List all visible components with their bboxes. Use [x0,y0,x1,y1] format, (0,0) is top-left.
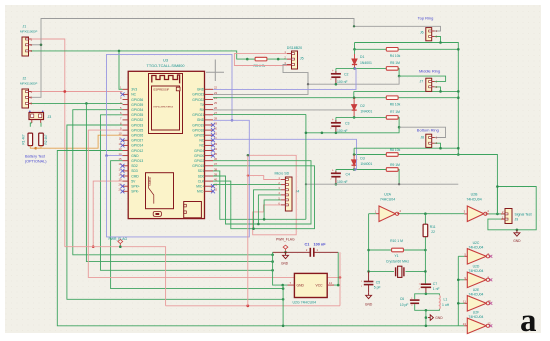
svg-text:GPIO14: GPIO14 [131,144,143,148]
wire red riser x247.8 [247,156,249,306]
svg-text:(OPTIONAL): (OPTIONAL) [25,159,47,163]
wire J1 pin1 red to vertical rail [32,39,65,247]
svg-text:NC: NC [199,139,204,143]
svg-text:GPIO36: GPIO36 [131,98,143,102]
svg-text:GPIO39: GPIO39 [131,103,143,107]
gate U2G 74HCU04 power unit [294,273,327,297]
wire green x305.9 top to module [213,113,306,115]
svg-text:GND: GND [297,284,305,288]
wire module GPIO13 loop [111,161,284,289]
svg-text:PWR_FLAG: PWR_FLAG [109,237,128,241]
svg-text:L1: L1 [444,298,448,302]
svg-text:MIC+: MIC+ [196,185,204,189]
junction D1 bottom [353,67,356,70]
svg-text:Top Ring: Top Ring [418,15,434,20]
svg-text:5 pF: 5 pF [374,286,381,290]
svg-text:GPIO19: GPIO19 [192,123,204,127]
svg-text:12: 12 [119,142,122,146]
wire gray J5 pin3 to ring gnd [213,65,308,95]
svg-text:U2B: U2B [471,193,478,197]
SIM800 block [146,173,174,209]
wire to gnd and bottom rail [425,310,427,326]
svg-text:GPIO34: GPIO34 [131,108,143,112]
junction green at x119 [118,50,121,53]
gray branch to ring1 gnd row [307,73,309,85]
svg-text:R2 4k7: R2 4k7 [44,134,48,144]
wire orange battery test to GPIO26 [36,135,123,148]
wire green top ring gnd A [355,43,459,155]
wire J8 pin2 hook to A3 [435,143,441,148]
resistor R3 4.7k [255,57,267,61]
svg-text:+: + [332,69,334,73]
svg-text:GPIO21: GPIO21 [192,113,204,117]
wire green A3 gnd row [354,147,458,149]
wire J3 pin2 to R2 [40,123,42,127]
wire green SD pin2 to module [213,184,281,186]
junction ring2 drop [398,126,401,129]
capacitor C6 10 pF [410,300,420,303]
wire green CLK nest to pin3 [213,166,315,229]
svg-text:74HCU04: 74HCU04 [466,198,481,202]
svg-text:1N4001: 1N4001 [360,61,372,65]
junction U2G pin7 [281,284,284,287]
svg-text:GPIO0: GPIO0 [194,154,204,158]
resistor R5 1M [386,67,398,71]
svg-text:ESP32-WROVER-B: ESP32-WROVER-B [154,107,174,109]
svg-text:13: 13 [463,322,467,326]
wire top ring rail with R5 [336,67,386,69]
wire gray ring1 gnd row [308,76,399,84]
svg-text:C1: C1 [305,242,310,246]
svg-text:R3 4.7k: R3 4.7k [254,64,266,68]
svg-text:GPIO5: GPIO5 [194,134,204,138]
junction D2 bottom [353,116,356,119]
svg-text:10 pF: 10 pF [400,303,409,307]
wire ring3 B continues to U2B [458,155,497,214]
svg-text:R1 4k7: R1 4k7 [22,134,26,144]
capacitor C2 100 nF [335,68,337,71]
svg-text:16: 16 [119,162,122,166]
wire C1 left to U2G pin7 [273,252,288,285]
wire gray J1/J2 pin2 loop over top [32,19,441,98]
junction C2 bottom [335,83,338,86]
svg-text:1N4001: 1N4001 [360,110,372,114]
svg-text:GPIO4: GPIO4 [194,149,204,153]
svg-text:GND: GND [131,154,139,158]
svg-text:MPX5100DP: MPX5100DP [20,30,37,34]
svg-text:GPIO27: GPIO27 [131,139,143,143]
inductor L1 1 uH [438,295,441,309]
ground below C5 [366,292,372,298]
wire red riser x340 [339,252,341,305]
wire U2B output to J9 [486,213,490,215]
svg-text:Middle Ring: Middle Ring [419,69,440,74]
svg-text:SPK-: SPK- [131,190,139,194]
svg-text:GPIO12: GPIO12 [131,149,143,153]
junction violet [231,119,234,122]
svg-text:14: 14 [119,152,122,156]
wire J3 pin1 to R1 [32,120,41,124]
resistor R1 4k7 [28,133,33,146]
svg-text:GPIO32: GPIO32 [131,118,143,122]
svg-text:C6: C6 [400,297,404,301]
svg-text:DS18B20: DS18B20 [287,46,302,50]
capacitor C7 1 nF [421,284,431,294]
svg-text:Signal Test: Signal Test [515,213,532,217]
wire green SD1 nest to pin5 [213,171,306,219]
svg-text:Micro SD: Micro SD [275,171,290,175]
svg-text:100 nF: 100 nF [337,80,348,84]
svg-text:GND: GND [365,303,373,307]
svg-text:R7 1M: R7 1M [390,110,400,114]
wire J7 pin2 hook to A2 [435,87,441,92]
junction ring1 drop [398,75,401,78]
svg-text:NC: NC [131,93,136,97]
resistor R8 10k [386,153,398,157]
svg-text:D1: D1 [360,55,364,59]
ESP32 shield outline [149,74,183,134]
wire C3 bottom green to module [306,132,336,134]
module U3 left pins [123,89,129,191]
svg-text:GPIO25: GPIO25 [131,128,143,132]
svg-text:21: 21 [119,188,122,192]
wire module GPIO25 red loop [88,130,340,277]
wire green A2 gnd row [354,90,459,92]
wire red bottom rail [166,305,340,307]
svg-text:14: 14 [329,281,333,285]
wire branch down to row 261.6 [86,103,272,261]
no-connect U2D output [489,278,492,281]
svg-text:SD2: SD2 [131,164,138,168]
svg-text:10: 10 [119,132,122,136]
wire left feedback vertical [368,214,370,272]
svg-text:R6 10k: R6 10k [390,102,401,106]
svg-text:100 nF: 100 nF [314,242,327,246]
wire violet module GND loop [107,54,233,155]
resistor R2 4k7 [39,133,44,146]
svg-text:SD3: SD3 [131,169,138,173]
svg-text:SD0: SD0 [198,174,205,178]
svg-text:MIC-: MIC- [197,190,204,194]
svg-text:R11: R11 [430,225,436,229]
svg-text:74HCU04: 74HCU04 [469,292,484,296]
svg-text:J2: J2 [23,77,27,81]
svg-text:RX: RX [200,108,205,112]
wire U2A input [369,213,376,215]
svg-text:GPIO13: GPIO13 [131,159,143,163]
ground sideways [428,315,433,321]
wire C6 L1 loop [426,294,440,296]
svg-text:20: 20 [119,183,122,187]
resistor R6 10k [386,96,398,100]
svg-text:MPX5100DP: MPX5100DP [20,82,37,86]
resistor R9 1M [386,168,398,172]
wire red J5 pin1 loop [234,54,292,66]
wire ring3 rail with R9 [336,169,386,171]
svg-text:Battery Test: Battery Test [25,154,46,158]
svg-text:SD1: SD1 [198,169,205,173]
junction gray x308 [307,83,309,85]
svg-text:J5: J5 [300,57,304,61]
svg-text:GPIO33: GPIO33 [131,123,143,127]
svg-text:J3: J3 [48,115,52,119]
connector J9 Signal Test [505,209,512,224]
wire module GPIO35 loop [101,115,273,270]
svg-text:GPIO26: GPIO26 [131,134,143,138]
wire red rail corner down [65,247,166,306]
svg-text:J8: J8 [420,135,424,139]
junction J2 pin3 branch [85,102,88,105]
svg-text:R10 1 M: R10 1 M [390,239,403,243]
resistor R10 1M [369,249,392,251]
chip logo square [176,87,180,91]
svg-text:R4 10k: R4 10k [390,54,401,58]
SIM800 button [153,212,161,217]
svg-text:19: 19 [119,178,122,182]
junction J9 pin2 [496,213,499,216]
diode D2 1N4001 [352,98,357,118]
svg-text:C5: C5 [376,280,380,284]
junction R3 right [277,58,280,61]
wire J1 pin3 green to DS18B20 and 3V3 [32,51,248,59]
ground below PWR_FLAG [283,252,289,258]
svg-text:74HCU04: 74HCU04 [469,315,484,319]
svg-text:U2G 74HCU04: U2G 74HCU04 [293,301,317,305]
svg-text:U2A: U2A [384,193,391,197]
svg-text:J7: J7 [420,79,424,83]
svg-text:CMD: CMD [131,174,139,178]
svg-text:TTGO-TCALL-SIM800: TTGO-TCALL-SIM800 [147,64,185,68]
no-connect U2C output [489,255,492,258]
wire module GPIO12 outer loop to bottom rail [57,151,458,326]
wire R1/R2 bottoms to junction [30,146,41,149]
svg-text:+: + [332,168,334,172]
svg-text:GPIO15: GPIO15 [192,164,204,168]
resistor R7 1M [386,116,398,120]
wire branch to module 3V3 [119,51,123,89]
svg-text:11: 11 [463,299,466,303]
svg-text:GND: GND [197,88,205,92]
svg-text:Y1: Y1 [394,254,398,258]
svg-text:GND: GND [435,316,443,320]
svg-text:74HCU04: 74HCU04 [469,245,484,249]
svg-text:R5 1M: R5 1M [390,61,400,65]
svg-text:25: 25 [214,101,217,105]
svg-text:GPIO2: GPIO2 [194,159,204,163]
svg-text:17: 17 [119,167,122,171]
svg-text:15: 15 [119,157,122,161]
wire green vertical to C3 row [305,114,307,219]
wire R3 to J5 pin2 [247,58,254,60]
resistor R4 10k [386,48,398,52]
svg-text:C4: C4 [346,173,351,177]
wire violet V1 to ring1 rail [213,68,356,89]
junction J2 pin1 [63,90,66,93]
wire gray hook to J8 pin1 [399,127,445,137]
wire ring3 B with R8 [354,154,386,156]
svg-text:100 nF: 100 nF [337,180,348,184]
diode D3 1N4001 [352,155,357,170]
junction ring2 B [353,96,356,99]
svg-text:GPIO35: GPIO35 [131,113,143,117]
svg-text:Crystal 60 MHz: Crystal 60 MHz [386,260,409,264]
wire J2 pin1 red to module GPIO36 [32,91,123,93]
svg-text:GPIO18: GPIO18 [192,128,204,132]
wire module GPIO34 loop [73,110,273,255]
svg-text:C3: C3 [345,122,350,126]
junction D3 bottom [353,168,356,171]
svg-text:D3: D3 [360,156,364,160]
junction J1 pin2 gray [32,44,42,46]
svg-text:PWR_FLAG: PWR_FLAG [276,238,295,242]
svg-text:SPK+: SPK+ [131,185,140,189]
wire J2 pin3 green to GPIO39 [32,102,123,104]
wire gray ring3 gnd [306,183,458,185]
wire ring2 B with R6 [213,97,386,99]
svg-text:GND: GND [281,262,289,266]
junction ring bus [457,96,460,99]
wire module 5V red to PWR rail [93,181,122,247]
svg-text:J6: J6 [420,31,424,35]
antenna squiggle [152,75,180,83]
svg-text:74HCU04: 74HCU04 [380,198,395,202]
svg-text:74HCU04: 74HCU04 [469,269,484,273]
wire green link to C3 bottom row [336,127,399,133]
junction C3 bottom [335,132,338,135]
wire top ring B with R4 [354,43,356,50]
wire violet V2 to ring3 rail [213,139,357,169]
svg-text:J9: J9 [515,218,519,222]
wire green down from pin7 junction [282,285,284,326]
connector J4 Micro SD [285,177,292,211]
wire green hook to J7 pin1 [399,76,446,81]
capacitor C4 100 nF [335,170,337,172]
junction C6L1 bottom [425,309,428,312]
svg-text:CLK: CLK [198,179,205,183]
wire ring2 rail with R7 [336,116,386,118]
svg-text:22: 22 [431,230,435,234]
svg-text:C7: C7 [433,282,437,286]
junction U2A output [424,212,427,215]
junction battery test [34,147,37,150]
wire green SD0 nest to pin4 [213,161,311,224]
diode D1 1N4001 [354,49,356,54]
ground signal test [516,229,519,232]
svg-text:VCC: VCC [316,284,324,288]
junction R3 left [246,58,249,61]
ESP32 chip body [152,86,180,130]
junction C7 bottom [425,293,428,296]
junction gray top corner [353,25,355,27]
svg-text:28: 28 [214,116,217,120]
svg-text:22: 22 [214,86,217,90]
wire violet GPIO19 to bottom loop [107,120,250,237]
junction C4 bottom [335,183,338,186]
module U3 right pins [205,89,214,191]
svg-text:ESPRESSIF: ESPRESSIF [154,87,170,91]
svg-text:1 nF: 1 nF [433,287,440,291]
junction R10 left [367,249,370,252]
junction ring3 B left [353,153,356,156]
svg-text:Bottom Ring: Bottom Ring [417,127,439,132]
svg-text:NC: NC [199,144,204,148]
svg-text:a: a [520,303,537,339]
sim socket small IC [184,202,202,218]
junction crystal right [424,270,427,273]
resistor R11 22 [423,224,428,237]
wire gray TX RX [213,109,352,111]
wire pink SD loop to pin6 [248,155,296,235]
wire right vertical through R11 [424,214,426,225]
svg-text:GND: GND [513,239,521,243]
wire pink SD pin1 [248,176,281,180]
svg-text:+: + [332,118,334,122]
svg-text:C2: C2 [344,73,349,77]
wire module GPIO33 loop [67,125,283,299]
svg-text:1N4001: 1N4001 [360,162,372,166]
svg-text:R9 1M: R9 1M [390,163,400,167]
svg-text:1 uH: 1 uH [442,303,450,307]
wire C1 right to U2G pin14 [334,252,339,285]
gray cross marker [206,60,224,82]
wire J6 pin2 hook [435,37,441,43]
wire inverter input bus [457,256,459,326]
capacitor C3 100 nF [335,117,337,120]
svg-text:100 nF: 100 nF [337,129,348,133]
svg-text:GPIO22: GPIO22 [192,98,204,102]
svg-text:3V3: 3V3 [131,88,137,92]
svg-text:GND: GND [197,118,205,122]
no-connect U2F output [489,324,492,327]
svg-text:18: 18 [119,172,122,176]
svg-text:U3: U3 [163,57,169,62]
no-connect U2E output [489,302,492,305]
capacitor C5 6 pF [364,271,374,292]
svg-text:J1: J1 [23,25,27,29]
svg-text:D2: D2 [360,104,364,108]
wire J9 pin1 gnd loop [488,187,536,230]
svg-text:GPIO23: GPIO23 [192,93,204,97]
junction crystal left [367,270,370,273]
connector J3 [29,113,44,120]
wire U2A output to U2B [400,213,464,215]
junction R10 right [424,249,427,252]
junction bottom rail [425,325,428,328]
svg-text:13: 13 [119,147,122,151]
junction red bottom [246,304,249,307]
